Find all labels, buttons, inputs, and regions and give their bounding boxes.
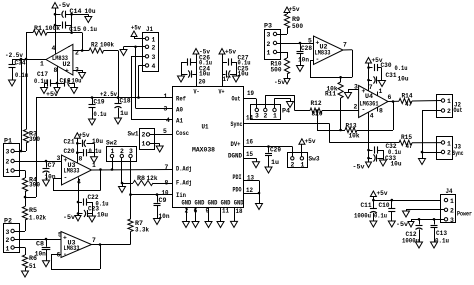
svg-text:3: 3 <box>354 84 358 91</box>
svg-text:Sync: Sync <box>231 121 243 128</box>
svg-text:C19: C19 <box>94 99 105 106</box>
svg-text:GND GND GND GND GND: GND GND GND GND GND <box>182 200 244 207</box>
svg-text:D.Adj: D.Adj <box>176 166 192 173</box>
svg-text:C29: C29 <box>270 147 281 154</box>
svg-text:8: 8 <box>379 108 383 115</box>
svg-text:0.1u: 0.1u <box>395 65 408 72</box>
svg-text:5: 5 <box>308 38 312 45</box>
svg-text:Sw3: Sw3 <box>309 156 320 163</box>
svg-text:R13: R13 <box>346 123 357 130</box>
svg-text:J1: J1 <box>146 26 153 33</box>
svg-text:1: 1 <box>273 113 277 120</box>
svg-text:-5v: -5v <box>353 164 365 171</box>
svg-text:PDO: PDO <box>233 187 242 194</box>
svg-text:0.1u: 0.1u <box>34 78 47 85</box>
svg-text:1: 1 <box>142 141 146 148</box>
svg-text:DV+: DV+ <box>231 141 241 148</box>
svg-text:-: - <box>362 107 366 114</box>
svg-text:47: 47 <box>405 101 412 108</box>
svg-text:16: 16 <box>246 139 253 146</box>
svg-text:+: + <box>65 68 69 75</box>
svg-text:10u: 10u <box>398 76 409 83</box>
svg-text:1: 1 <box>379 88 383 95</box>
svg-text:C7: C7 <box>48 162 56 169</box>
svg-text:-: - <box>63 251 67 258</box>
svg-text:1: 1 <box>164 93 168 100</box>
svg-text:C18: C18 <box>120 98 131 105</box>
svg-text:2: 2 <box>291 162 295 169</box>
svg-text:P3: P3 <box>264 23 272 30</box>
svg-text:Ref: Ref <box>176 96 186 103</box>
svg-text:2: 2 <box>447 108 451 115</box>
svg-text:10: 10 <box>162 190 169 197</box>
svg-text:F.Adj: F.Adj <box>176 180 192 187</box>
svg-text:5: 5 <box>163 128 167 135</box>
svg-text:9: 9 <box>206 208 210 215</box>
svg-text:R9: R9 <box>292 16 300 23</box>
svg-text:7: 7 <box>165 164 169 171</box>
svg-text:C20: C20 <box>64 148 75 155</box>
svg-text:820: 820 <box>312 111 323 118</box>
svg-text:500: 500 <box>271 67 282 74</box>
svg-text:R5: R5 <box>29 207 37 214</box>
svg-text:C17: C17 <box>37 71 48 78</box>
svg-text:4: 4 <box>152 63 156 70</box>
svg-text:P2: P2 <box>4 218 12 225</box>
svg-text:C15: C15 <box>69 26 81 33</box>
svg-text:8: 8 <box>54 67 58 74</box>
svg-text:0.1u: 0.1u <box>89 148 102 155</box>
svg-text:1u: 1u <box>120 110 128 117</box>
svg-text:3: 3 <box>152 54 156 61</box>
svg-text:C31: C31 <box>386 72 397 79</box>
svg-text:11: 11 <box>222 208 229 215</box>
svg-text:12k: 12k <box>147 175 158 182</box>
svg-text:13: 13 <box>247 175 254 182</box>
svg-text:3: 3 <box>267 32 271 39</box>
svg-text:100k: 100k <box>100 42 114 49</box>
svg-text:4: 4 <box>77 179 81 186</box>
svg-text:0.1u: 0.1u <box>435 238 449 245</box>
svg-text:3: 3 <box>129 148 133 155</box>
svg-text:+5v: +5v <box>305 138 316 145</box>
svg-text:C11: C11 <box>361 202 372 209</box>
svg-text:2: 2 <box>267 41 271 48</box>
svg-text:V-: V- <box>194 89 200 96</box>
svg-text:7: 7 <box>92 237 96 244</box>
svg-text:3: 3 <box>450 217 454 224</box>
svg-text:8: 8 <box>79 156 83 163</box>
svg-text:4: 4 <box>370 113 374 120</box>
svg-text:1: 1 <box>6 246 10 253</box>
svg-text:15: 15 <box>246 151 253 158</box>
svg-text:U1: U1 <box>202 124 209 131</box>
svg-text:-: - <box>316 56 320 63</box>
svg-text:R15: R15 <box>401 134 412 141</box>
svg-text:14: 14 <box>246 115 253 122</box>
svg-text:2: 2 <box>75 50 79 57</box>
svg-text:17: 17 <box>223 76 230 83</box>
svg-text:R12: R12 <box>311 100 322 107</box>
svg-text:10u: 10u <box>199 71 210 78</box>
svg-text:DGND: DGND <box>228 153 242 160</box>
svg-text:C16: C16 <box>60 78 71 85</box>
svg-text:1: 1 <box>447 141 451 148</box>
svg-text:-5v: -5v <box>63 214 75 221</box>
svg-text:-: - <box>64 175 68 182</box>
svg-text:A1: A1 <box>176 118 183 125</box>
svg-text:47: 47 <box>406 143 413 150</box>
svg-text:U2: U2 <box>63 61 71 68</box>
svg-text:C30: C30 <box>381 62 392 69</box>
svg-text:10u: 10u <box>238 71 249 78</box>
svg-text:0.1u: 0.1u <box>94 111 107 118</box>
svg-text:1: 1 <box>40 61 44 68</box>
svg-text:2: 2 <box>6 237 10 244</box>
svg-text:6: 6 <box>194 208 198 215</box>
svg-text:C34: C34 <box>15 60 26 67</box>
svg-text:+5v: +5v <box>225 49 236 56</box>
svg-text:+5v: +5v <box>79 132 90 139</box>
svg-text:C21: C21 <box>64 139 75 146</box>
svg-text:390: 390 <box>29 182 40 189</box>
svg-text:4: 4 <box>52 45 56 52</box>
svg-text:+5v: +5v <box>131 25 141 32</box>
svg-text:8: 8 <box>165 180 169 187</box>
svg-text:500: 500 <box>292 23 303 30</box>
svg-text:+: + <box>63 235 67 242</box>
svg-text:3: 3 <box>255 113 259 120</box>
svg-text:7: 7 <box>343 42 347 49</box>
svg-text:-: - <box>67 44 71 51</box>
svg-text:10u: 10u <box>92 138 103 145</box>
svg-text:10n: 10n <box>35 250 46 257</box>
svg-text:Sw2: Sw2 <box>106 140 117 147</box>
svg-text:C10: C10 <box>379 202 390 209</box>
svg-text:1: 1 <box>152 37 156 44</box>
svg-text:1: 1 <box>450 198 454 205</box>
svg-text:20: 20 <box>199 79 206 86</box>
svg-text:390: 390 <box>29 136 40 143</box>
svg-text:5: 5 <box>58 232 62 239</box>
svg-text:+5v: +5v <box>289 6 300 13</box>
svg-text:1.02k: 1.02k <box>29 215 46 222</box>
svg-text:51: 51 <box>29 263 36 270</box>
svg-text:V+: V+ <box>219 89 225 96</box>
svg-text:10u: 10u <box>85 8 96 15</box>
svg-text:6: 6 <box>388 94 392 101</box>
svg-text:18: 18 <box>236 208 243 215</box>
svg-text:6: 6 <box>57 252 61 259</box>
svg-text:0.1u: 0.1u <box>374 213 387 220</box>
svg-text:1: 1 <box>267 50 271 57</box>
svg-text:2: 2 <box>120 148 124 155</box>
svg-text:0.1u: 0.1u <box>83 26 97 33</box>
svg-text:LM833: LM833 <box>64 168 80 175</box>
svg-text:1: 1 <box>6 168 10 175</box>
svg-text:2: 2 <box>450 208 454 215</box>
svg-text:10u: 10u <box>97 212 108 219</box>
svg-text:-2.5v: -2.5v <box>5 52 23 59</box>
svg-text:2: 2 <box>354 104 358 111</box>
svg-text:1: 1 <box>111 148 115 155</box>
svg-text:R2: R2 <box>91 42 98 49</box>
svg-text:1000u: 1000u <box>402 238 419 245</box>
svg-text:P4: P4 <box>282 108 290 115</box>
svg-text:Sync: Sync <box>453 150 464 157</box>
svg-text:C9: C9 <box>159 197 167 204</box>
svg-text:+2.5v: +2.5v <box>100 91 117 98</box>
svg-text:3: 3 <box>75 67 79 74</box>
svg-text:10u: 10u <box>391 161 402 168</box>
svg-text:P1: P1 <box>4 138 12 145</box>
svg-text:1000u: 1000u <box>354 213 371 220</box>
svg-text:7: 7 <box>369 84 373 91</box>
svg-text:12: 12 <box>246 187 253 194</box>
svg-text:1u: 1u <box>271 159 279 166</box>
svg-text:J4: J4 <box>446 188 453 195</box>
svg-text:R8: R8 <box>137 175 145 182</box>
svg-text:3: 3 <box>6 229 10 236</box>
svg-text:19: 19 <box>247 90 254 97</box>
svg-text:1: 1 <box>92 162 96 169</box>
svg-text:2: 2 <box>447 150 451 157</box>
svg-text:R11: R11 <box>325 91 336 98</box>
svg-text:3: 3 <box>164 106 168 113</box>
svg-text:Out: Out <box>454 107 463 114</box>
svg-text:PDI: PDI <box>233 174 242 181</box>
svg-text:Sw1: Sw1 <box>128 131 139 138</box>
svg-text:4: 4 <box>166 117 170 124</box>
svg-text:C8: C8 <box>36 241 44 248</box>
svg-text:3: 3 <box>6 149 10 156</box>
svg-text:C28: C28 <box>301 45 312 52</box>
svg-text:-5v: -5v <box>274 79 285 86</box>
svg-text:Out: Out <box>232 96 241 103</box>
svg-text:MAX038: MAX038 <box>192 147 215 154</box>
svg-text:C13: C13 <box>436 230 447 237</box>
svg-text:R14: R14 <box>402 93 413 100</box>
svg-text:10u: 10u <box>72 78 82 85</box>
svg-text:-5v: -5v <box>396 221 408 228</box>
svg-text:3: 3 <box>57 155 61 162</box>
svg-text:0.1u: 0.1u <box>15 72 28 79</box>
svg-text:2: 2 <box>185 208 189 215</box>
svg-text:+5v: +5v <box>46 91 58 98</box>
svg-text:1: 1 <box>301 162 305 169</box>
svg-text:C14: C14 <box>70 8 82 15</box>
svg-text:2: 2 <box>142 132 146 139</box>
svg-text:Iin: Iin <box>176 192 186 199</box>
svg-text:2: 2 <box>264 113 268 120</box>
svg-text:2: 2 <box>6 159 10 166</box>
svg-text:10n: 10n <box>298 57 309 64</box>
svg-text:R1: R1 <box>34 25 42 32</box>
svg-text:-5v: -5v <box>58 2 70 9</box>
svg-text:1: 1 <box>447 98 451 105</box>
svg-text:U4: U4 <box>365 93 373 100</box>
svg-text:100k: 100k <box>45 25 60 32</box>
svg-text:10n: 10n <box>159 213 170 220</box>
svg-text:10k: 10k <box>349 133 360 140</box>
svg-text:A0: A0 <box>176 107 183 114</box>
svg-text:2: 2 <box>152 45 156 52</box>
svg-text:10n: 10n <box>45 174 56 181</box>
svg-text:3.3k: 3.3k <box>135 227 149 234</box>
svg-text:Power: Power <box>457 211 472 218</box>
svg-text:Cosc: Cosc <box>176 130 189 137</box>
svg-text:+5v: +5v <box>377 190 388 197</box>
